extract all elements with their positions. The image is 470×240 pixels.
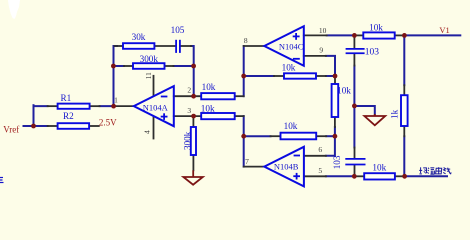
svg-text:2.5V: 2.5V [99, 117, 117, 127]
svg-text:105: 105 [171, 25, 185, 35]
svg-text:30k: 30k [132, 32, 146, 42]
svg-text:300k: 300k [183, 131, 193, 150]
svg-text:4: 4 [143, 130, 152, 134]
svg-text:V1: V1 [439, 25, 449, 35]
svg-text:10k: 10k [201, 103, 215, 113]
svg-text:1k: 1k [390, 109, 400, 119]
svg-text:10k: 10k [202, 82, 216, 92]
svg-text:N104A: N104A [143, 103, 169, 113]
svg-text:8: 8 [244, 36, 248, 45]
svg-text:10k: 10k [372, 162, 386, 172]
svg-text:10k: 10k [369, 23, 383, 33]
svg-text:10k: 10k [337, 86, 351, 96]
svg-text:R2: R2 [63, 111, 74, 121]
svg-text:1: 1 [114, 96, 118, 105]
svg-text:2: 2 [187, 86, 191, 95]
svg-text:300k: 300k [140, 54, 159, 64]
svg-text:5: 5 [318, 166, 322, 175]
svg-text:7: 7 [245, 157, 249, 166]
svg-text:103: 103 [332, 155, 342, 169]
svg-text:Vref: Vref [3, 124, 19, 134]
svg-text:9: 9 [319, 45, 323, 54]
svg-text:N104C: N104C [279, 42, 304, 52]
svg-text:10: 10 [319, 26, 327, 35]
svg-text:3: 3 [187, 106, 191, 115]
svg-text:103: 103 [365, 48, 380, 58]
svg-text:10k: 10k [282, 63, 296, 73]
svg-text:N104B: N104B [274, 162, 299, 172]
svg-text:10k: 10k [284, 121, 298, 131]
svg-text:6: 6 [318, 145, 322, 154]
svg-text:11: 11 [144, 72, 153, 79]
svg-text:R1: R1 [61, 93, 72, 103]
